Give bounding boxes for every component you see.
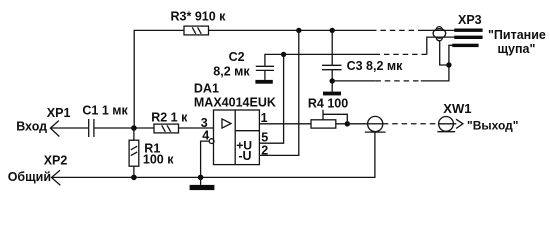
capacitor C3 — [322, 65, 342, 81]
svg-text:5: 5 — [261, 130, 268, 144]
chassis ground under C3 — [323, 81, 341, 95]
connector XP1 arrow — [50, 121, 59, 137]
wire pin 1 output to R4 — [259, 123, 311, 125]
svg-text:DA1: DA1 — [194, 81, 219, 95]
svg-text:4: 4 — [202, 128, 209, 142]
wire top rail into XP3 contact 1 — [422, 29, 455, 31]
wire pin 4 to ground — [201, 141, 210, 177]
svg-text:XW1: XW1 — [443, 101, 471, 116]
svg-text:R4 100: R4 100 — [308, 97, 348, 111]
svg-text:XP2: XP2 — [44, 154, 68, 168]
connector XP2 arrow — [52, 170, 61, 185]
svg-text:R3* 910 к: R3* 910 к — [171, 10, 227, 24]
wire rail 3 dashed cable section — [375, 80, 420, 82]
svg-text:"Выход": "Выход" — [467, 118, 518, 132]
connector XP3 shell circle — [433, 27, 446, 41]
wire XP3 shell down to node — [440, 40, 449, 65]
node R1 bottom — [131, 175, 137, 181]
svg-text:1: 1 — [261, 111, 268, 125]
wire top rail left branch from input node up to R3 — [134, 30, 184, 128]
svg-text:100 к: 100 к — [143, 153, 174, 167]
wire rail 2 dashed cable section — [375, 53, 427, 55]
chassis ground main — [190, 177, 215, 190]
svg-text:2: 2 — [261, 143, 268, 157]
resistor R4 trimmer — [311, 110, 347, 128]
svg-text:XP3: XP3 — [458, 13, 482, 27]
node input — [131, 125, 137, 131]
chassis ground under C2 — [255, 80, 272, 84]
svg-text:C1 1 мк: C1 1 мк — [82, 104, 128, 118]
svg-text:C2: C2 — [229, 50, 245, 64]
wire R2 to pin 3 — [179, 127, 214, 129]
capacitor C2 — [256, 66, 274, 80]
wire rail 2 riser up to XP3 contact 2 — [427, 37, 455, 54]
resistor R3 — [184, 26, 209, 35]
resistor R1 — [129, 128, 139, 177]
svg-text:8,2 мк: 8,2 мк — [213, 65, 250, 79]
wire pin 5 riser (+U) from rail 2 down to op-amp pin 5 — [259, 54, 283, 143]
resistor R2 — [154, 124, 179, 133]
wire C3 riser from top rail — [331, 30, 333, 65]
XP3 contact bar 3 — [452, 44, 478, 47]
capacitor C1 — [89, 119, 94, 137]
wire R4 to coax socket — [336, 123, 368, 125]
svg-text:MAX4014EUK: MAX4014EUK — [194, 96, 276, 110]
node at R4 wiper join — [345, 121, 350, 126]
wire input from XP1 to C1 — [50, 127, 88, 129]
wire top rail from R3 to dashed section — [209, 29, 372, 31]
svg-text:"Питание: "Питание — [488, 28, 546, 42]
svg-text:щупа": щупа" — [498, 42, 536, 56]
connector XW1 plug — [437, 117, 463, 132]
svg-text:-U: -U — [238, 149, 251, 163]
svg-text:XP1: XP1 — [47, 106, 71, 120]
XP3 contact bar 2 — [454, 36, 482, 39]
pin 4 inversion circle — [209, 139, 214, 144]
coax socket circle — [365, 116, 386, 132]
op-amp DA1 — [214, 110, 260, 165]
node pin4 ground join — [198, 175, 204, 181]
wire rail 3 solid from C3 node — [332, 80, 375, 82]
node at XP3 shield join — [446, 62, 451, 67]
wire rail 2 (+U) solid from C2 corner to cable — [265, 54, 375, 65]
svg-text:Вход: Вход — [16, 119, 47, 133]
wire top rail dashed cable section — [371, 29, 422, 31]
wire rail 3 to XP3 contact 3 riser — [421, 45, 453, 81]
node on rail 2 at pin 5 riser — [281, 52, 286, 57]
wire bottom common rail and shield riser — [52, 132, 375, 177]
svg-text:R2 1 к: R2 1 к — [151, 110, 188, 124]
svg-text:Общий: Общий — [8, 170, 51, 184]
wire C1 to input node — [94, 127, 154, 129]
svg-text:С3 8,2 мк: С3 8,2 мк — [347, 59, 404, 73]
node under C3 — [330, 78, 335, 83]
node on top rail at pin2 riser — [296, 28, 301, 33]
wire dashed coax cable to XW1 — [383, 123, 439, 125]
node on top rail at C3 riser — [330, 28, 335, 33]
XP3 contact bar 1 — [454, 29, 482, 32]
wire pin 2 riser (-U) from top rail down to op-amp pin 2 — [259, 30, 298, 155]
